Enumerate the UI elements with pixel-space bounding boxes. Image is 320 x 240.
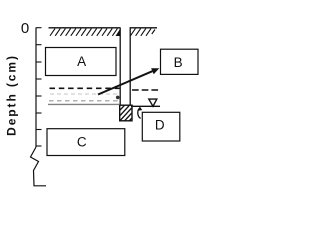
svg-text:D: D [155,117,165,132]
svg-text:0: 0 [21,20,29,37]
svg-text:C: C [77,134,87,149]
svg-text:A: A [77,54,86,69]
svg-text:Depth (cm): Depth (cm) [5,54,19,136]
svg-text:B: B [174,55,183,70]
